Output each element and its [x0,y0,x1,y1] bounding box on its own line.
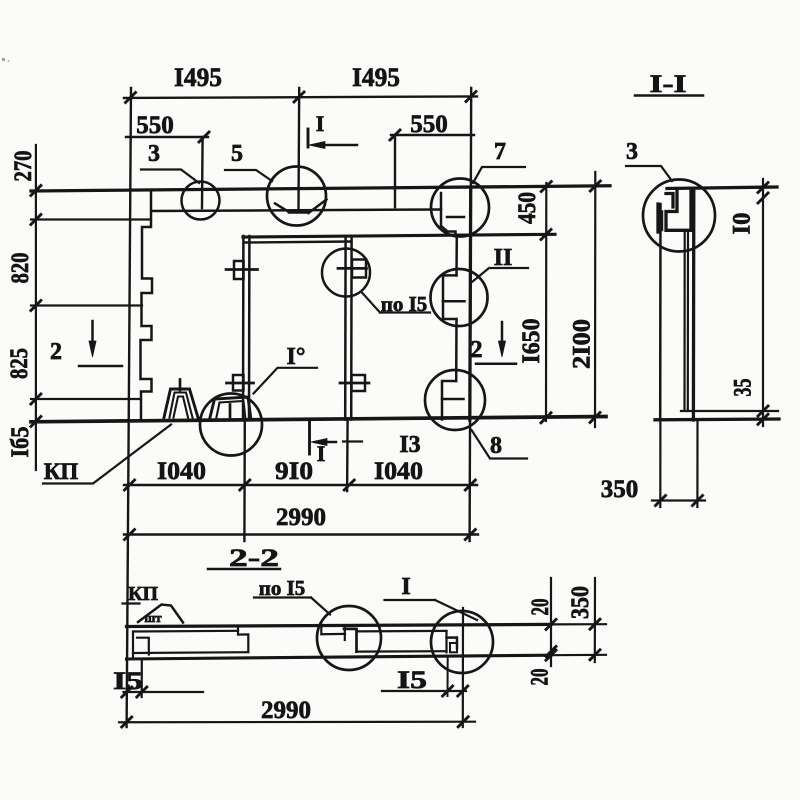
svg-text:2990: 2990 [261,697,311,724]
section left face [659,204,662,420]
anchor tab right jamb upper [352,260,366,278]
svg-text:I0: I0 [729,213,756,235]
door jamb left [242,236,245,420]
leader 3 [141,170,199,184]
svg-text:825: 825 [6,348,33,379]
foot 1 outer [164,389,198,418]
tick 35 bottom [758,414,768,424]
svg-text:2: 2 [471,337,483,363]
leader 820 level [31,304,142,306]
detail circle 11 [431,269,488,326]
svg-text:I495: I495 [174,63,222,92]
leader 825 level [31,398,141,400]
svg-text:5: 5 [231,141,243,167]
dim 550 right [391,134,474,136]
extension x245 [243,420,246,541]
svg-text:2: 2 [50,339,62,365]
svg-text:8: 8 [490,433,502,459]
band inner top left pier [133,630,238,633]
right dim chain 450/1650 [545,183,547,421]
middle double line a [683,232,685,410]
bottom dim row 2990 [124,533,478,535]
section right face [692,189,696,420]
underline I s22 [385,599,436,601]
svg-text:I: I [401,574,410,600]
key po15 s22 [344,629,357,652]
svg-text:КП: КП [128,583,159,605]
foot 2 [210,397,252,420]
svg-text:I: I [316,111,325,136]
extension line left (x~130 top to x~126.5 bottom) [127,88,131,727]
svg-text:Iб5: Iб5 [7,427,34,458]
svg-text:350: 350 [567,586,594,619]
vertical from 550R tick [394,135,396,207]
dim vertical right of section [762,179,764,426]
extension at x348 with tick [346,419,349,491]
right dim vertical 20/350 [550,578,552,666]
detail circle I s22 [431,611,493,673]
svg-text:350: 350 [601,476,639,503]
detail circle po15 [322,249,370,297]
svg-text:I040: I040 [374,458,423,485]
leader I s22 [435,600,477,620]
top leader extension s22 [551,623,606,625]
section mark I bottom [308,421,311,454]
leader po I5 [361,292,380,313]
leader 270 level [31,218,151,220]
band bottom face [127,655,552,659]
svg-text:2I00: 2I00 [569,319,596,369]
vertical from 550L tick to detail 3 [201,137,204,208]
svg-text:I650: I650 [518,319,545,364]
bottom dim row 1040/910/1040 [124,484,477,486]
svg-text:I495: I495 [352,63,400,92]
svg-text:3: 3 [148,141,160,167]
section mark I top [307,129,310,147]
extension 15 right [447,657,449,696]
left edge keyed profile [141,191,153,419]
svg-text:I-I: I-I [650,71,687,98]
band top face [127,624,552,626]
svg-text:35: 35 [730,379,757,397]
svg-text:I3: I3 [399,432,420,458]
band inner bottom right pier [357,650,447,653]
foot 2 inner [216,401,246,420]
extension 15 left [141,661,143,697]
key detail 8 [442,381,456,420]
rebate quarter profile [666,189,691,231]
detail circle 5 [267,167,326,226]
dim 15 right s22 [382,690,466,692]
svg-text:550: 550 [410,111,448,138]
tick [199,132,209,142]
section bottom edge [655,417,779,421]
middle double line b [687,232,689,410]
svg-text:7: 7 [494,139,506,165]
tick 10 bottom [758,193,768,203]
leader 8 [472,430,528,459]
extension 350 left [659,421,661,507]
key under lintel at detail 5 [275,204,289,213]
underline po I5 [380,311,430,313]
lintel inner line [152,210,441,212]
foot 1 inner [170,393,193,418]
tick [294,92,304,102]
svg-text:I5: I5 [113,668,143,695]
svg-text:820: 820 [7,253,34,284]
svg-text:I: I [317,441,326,466]
leader II [472,268,528,282]
left dim chain vertical [35,145,37,470]
foot 2 tick [229,405,232,418]
underline po I5 s22 [254,596,311,598]
section top edge [667,187,777,189]
panel right edge thick [468,189,472,420]
dim 550 left [126,136,208,138]
detail circle 8 [425,370,485,430]
leader KP [43,425,171,484]
right dim 2100 [594,172,596,427]
extension 350 right [696,421,698,507]
anchor tab right jamb lower [352,375,366,391]
svg-text:450: 450 [514,192,541,224]
key detail 11 [443,275,457,319]
key right circle s22 [445,631,447,652]
step before po15 circle [321,625,345,635]
tick [126,93,136,103]
leader 1deg [254,368,318,394]
band inner bottom left pier [133,651,248,654]
svg-text:270: 270 [10,151,37,182]
svg-text:550: 550 [136,112,174,139]
dim line 1495+1495 [124,96,477,98]
bottom leader extension s22 [551,654,606,657]
dim 350 section [652,499,705,501]
tick [390,130,400,140]
leader po I5 s22 [311,598,330,615]
leader 7 [473,167,525,183]
svg-text:шт: шт [144,610,162,625]
underline KP s22 [123,602,140,604]
svg-text:9I0: 9I0 [275,458,313,485]
panel top edge [31,186,610,191]
left outer jog [656,204,659,232]
extension line right [470,88,472,541]
title 2-2 underline [208,568,280,571]
tick [466,92,476,102]
svg-text:3: 3 [626,139,638,165]
detail circle 3 [182,182,220,220]
detail circle po15 s22 [317,606,381,670]
panel bottom edge [31,417,606,422]
band inner left vertical [132,632,134,659]
anchor tab left jamb upper [234,261,244,279]
right inner strip [455,236,458,275]
left key notch s22 [137,638,149,655]
tick 35 top [758,406,768,416]
anchor tab left jamb lower [233,375,244,391]
dim 2990 s22 [119,721,475,724]
title underline [635,94,703,97]
right end cap s22 [462,608,464,727]
opening top second line [245,242,351,243]
leader 5 [225,170,272,181]
detail circle 3 section [643,180,715,252]
support pad trapezoid s22 [138,605,183,623]
extension line mid top [297,88,300,209]
key detail 7 [440,193,443,226]
svg-text:2990: 2990 [276,504,326,531]
svg-text:КП: КП [44,459,79,484]
detail circle 7 [431,179,489,237]
foot 1 tick [179,380,182,391]
ticks right dims s22 [546,619,556,629]
key at left pier end [238,626,248,652]
door opening top edge [243,234,555,237]
svg-text:I5: I5 [397,667,427,694]
detail circle 1deg [200,394,262,456]
rebate profile hook [666,194,673,208]
dim 15 left s22 [124,691,204,693]
ticks left chain [31,186,41,196]
leader 35 [681,410,778,412]
tick 10 top [758,183,768,193]
band inner top right pier [357,630,447,633]
foot 1 inner2 [174,397,189,418]
leader 3 section [626,166,672,181]
svg-text:20: 20 [527,669,554,686]
svg-text:I040: I040 [157,458,206,485]
svg-text:20: 20 [527,599,554,616]
paper specks [2,58,5,61]
door jamb right [344,236,347,420]
svg-text:I°: I° [287,344,306,370]
